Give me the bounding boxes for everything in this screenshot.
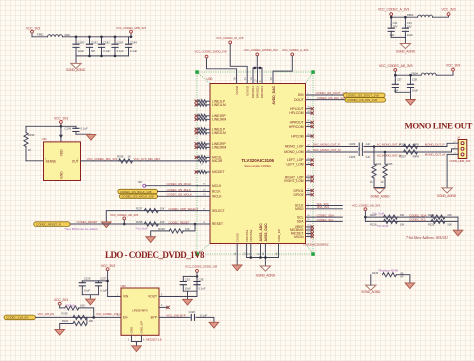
left pin names <box>212 99 227 226</box>
pin MONO_LOP wire <box>306 144 358 146</box>
resistor R237 <box>136 206 165 212</box>
ground arrow (LDO gnd) <box>132 346 142 352</box>
net label CODEC_I2S_DOUT_1V8 <box>316 91 386 97</box>
svg-text:R225: R225 <box>428 222 435 226</box>
resistor R224 <box>428 213 452 219</box>
svg-text:C184: C184 <box>130 41 137 45</box>
wire EN <box>36 316 122 318</box>
svg-text:MIC3R: MIC3R <box>212 159 223 163</box>
svg-text:VCC_1V8_EN: VCC_1V8_EN <box>38 312 55 316</box>
svg-text:CODEC_1V8_EN: CODEC_1V8_EN <box>6 316 28 320</box>
svg-text:CODEC_I2S_BCLK_1V8: CODEC_I2S_BCLK_1V8 <box>120 190 152 194</box>
pin MICIN <box>306 234 314 238</box>
power port VCC_CODEC_AD_3V3 (reset pull-up) <box>110 213 139 225</box>
svg-text:1uF: 1uF <box>390 33 395 37</box>
svg-text:10K: 10K <box>447 213 452 217</box>
svg-text:IOVDD: IOVDD <box>245 85 249 95</box>
svg-text:10K: 10K <box>400 222 405 226</box>
svg-text:MCLK: MCLK <box>212 184 222 188</box>
svg-text:35: 35 <box>203 184 206 186</box>
resistor R230 <box>62 312 87 320</box>
svg-text:VCC_CODEC_HPB_3V3: VCC_CODEC_HPB_3V3 <box>116 26 146 30</box>
svg-text:MONO_OUT_M: MONO_OUT_M <box>425 152 446 156</box>
wire + ground arrow <box>76 134 96 140</box>
ground SGND_AGND (tie) <box>361 275 381 294</box>
svg-text:SDA_3V3: SDA_3V3 <box>317 205 330 209</box>
pin GND_EP <box>275 244 278 258</box>
wire cap rail <box>82 280 107 282</box>
svg-text:LEFT_LOM: LEFT_LOM <box>286 163 303 167</box>
svg-text:VCC_CODEC_IO_1V8: VCC_CODEC_IO_1V8 <box>216 36 244 40</box>
svg-text:8: 8 <box>259 80 262 82</box>
capacitor C184 <box>125 37 138 56</box>
svg-text:DRVDD2: DRVDD2 <box>256 86 260 99</box>
svg-text:*No Stuff: *No Stuff <box>136 227 148 231</box>
capacitor C226 <box>79 277 91 295</box>
svg-text:C183: C183 <box>117 41 124 45</box>
svg-text:NET: NET <box>138 181 143 184</box>
svg-text:36: 36 <box>233 77 236 80</box>
wire + ground arrow (BYP) <box>196 317 219 328</box>
junction dots <box>390 16 393 19</box>
pin LINE2RM <box>195 145 210 149</box>
svg-text:C226: C226 <box>84 277 91 281</box>
pin LINE2LM <box>195 131 210 135</box>
svg-text:41: 41 <box>203 208 206 210</box>
pin HPRCOM <box>306 124 314 128</box>
wire <box>391 16 417 18</box>
capacitor C31 <box>388 17 398 37</box>
wire pull-up row 2 <box>365 220 458 222</box>
power port VCC_CODEC_DVDD_1V8 <box>195 49 237 83</box>
svg-text:4: 4 <box>307 207 309 209</box>
ground SGND_AGND (connector) <box>437 188 457 198</box>
svg-text:49R9: 49R9 <box>413 142 420 146</box>
svg-text:R228(A): R228(A) <box>66 304 76 308</box>
svg-text:VCC_3V3: VCC_3V3 <box>101 264 115 268</box>
svg-text:CODEC_ADR_SELECT: CODEC_ADR_SELECT <box>168 207 198 211</box>
power port VCC_CODEC_AD_3V3 (pull-ups) <box>352 203 381 221</box>
svg-text:MIC5317-1.8: MIC5317-1.8 <box>146 337 162 341</box>
wire out cap rail <box>183 275 197 277</box>
svg-text:AVDD_DAC: AVDD_DAC <box>272 85 276 104</box>
pin RIGHT_LOP <box>306 175 314 179</box>
net label (offsheet) CODEC_1V8_EN flag <box>4 315 36 320</box>
svg-text:BYP: BYP <box>151 316 157 320</box>
svg-text:DRVSS2: DRVSS2 <box>249 229 253 241</box>
svg-text:NP: NP <box>400 276 404 279</box>
svg-text:R231: R231 <box>62 319 69 323</box>
resistor R240 <box>372 271 404 279</box>
svg-text:SGND_AGND: SGND_AGND <box>396 49 416 53</box>
svg-text:10uF: 10uF <box>412 88 418 92</box>
svg-text:R224: R224 <box>428 213 435 217</box>
svg-text:DIN: DIN <box>298 93 304 97</box>
svg-text:VCC_CODEC_DVDD_1V8: VCC_CODEC_DVDD_1V8 <box>195 49 228 53</box>
svg-text:20: 20 <box>243 252 246 255</box>
svg-text:10uF: 10uF <box>185 287 191 291</box>
svg-text:SGND_AGND: SGND_AGND <box>361 290 381 294</box>
svg-text:CODEC_SCL: CODEC_SCL <box>409 218 426 222</box>
svg-text:FB01: FB01 <box>37 32 44 36</box>
power port VCC_3V3 <box>26 26 40 36</box>
svg-text:17: 17 <box>254 79 257 82</box>
svg-text:C181: C181 <box>91 41 98 45</box>
svg-text:R237: R237 <box>136 206 143 210</box>
wire <box>395 74 420 76</box>
wire BYP <box>159 316 190 318</box>
svg-text:CODEC_RESET_R: CODEC_RESET_R <box>36 222 61 226</box>
svg-text:0.1uF: 0.1uF <box>103 49 110 53</box>
svg-text:VCC_SYS_MIC_DET: VCC_SYS_MIC_DET <box>134 157 161 161</box>
svg-text:53: 53 <box>307 193 310 195</box>
svg-text:MONO LINE OUT: MONO LINE OUT <box>405 120 473 130</box>
ground SGND_AGND <box>66 56 86 72</box>
pin HPLOUT <box>306 107 314 111</box>
svg-text:1uF: 1uF <box>366 142 371 146</box>
svg-text:10K: 10K <box>89 319 94 323</box>
power port VCC_CODEC_HPVDD_3V3 <box>244 48 278 84</box>
wire RESET <box>70 223 197 225</box>
resistor R225 <box>428 219 452 226</box>
ground arrow (reset pulldown) <box>146 237 156 243</box>
wire + ground arrow <box>82 295 98 305</box>
resistor R207 <box>400 150 420 158</box>
svg-text:U33: U33 <box>121 284 127 288</box>
svg-text:DVDD: DVDD <box>235 85 239 94</box>
pin MICDET <box>195 170 210 174</box>
svg-text:4: 4 <box>161 304 163 307</box>
pin MICDET2 <box>306 231 314 235</box>
net label CODEC_I2S_DIN_1V8 <box>317 96 386 102</box>
svg-text:2: 2 <box>128 338 130 341</box>
resistor R238 <box>136 220 165 226</box>
svg-text:MICIN: MICIN <box>294 235 304 239</box>
svg-text:GND_EP: GND_EP <box>140 321 144 333</box>
svg-text:AC_MONO_OUT_P: AC_MONO_OUT_P <box>377 143 401 147</box>
svg-text:VCC_CODEC_HPVDD_3V3: VCC_CODEC_HPVDD_3V3 <box>244 48 278 52</box>
connector J4 <box>450 135 471 163</box>
wire join + ground SGND_AGND <box>371 188 391 199</box>
pin LINE2LP <box>195 127 210 131</box>
svg-text:VCC_CODEC_A_3V3: VCC_CODEC_A_3V3 <box>282 48 309 52</box>
power port VCC_CODEC_DVDD_1V8 (out) <box>159 265 218 297</box>
power port VCC_3V3 <box>446 64 460 71</box>
capacitor C37 <box>392 75 402 92</box>
resistor R228 <box>60 304 94 318</box>
svg-text:21: 21 <box>248 252 251 255</box>
pin DVSS + ground <box>232 244 242 271</box>
svg-text:CODEC_I2S_BCLK: CODEC_I2S_BCLK <box>167 188 192 192</box>
svg-text:R206: R206 <box>400 142 407 146</box>
svg-text:1: 1 <box>117 293 119 296</box>
svg-text:6: 6 <box>307 97 309 99</box>
svg-text:5: 5 <box>161 293 163 296</box>
svg-text:C228: C228 <box>189 310 196 314</box>
top pin names (rotated) <box>235 85 276 104</box>
ground arrow (EN pulldown) <box>55 329 65 335</box>
svg-text:R205: R205 <box>387 163 393 166</box>
pin DIN wire <box>306 93 344 95</box>
svg-text:LDO - CODEC_DVDD_1V8: LDO - CODEC_DVDD_1V8 <box>105 250 205 260</box>
net label CODEC_I2S_BCLK_1V8 <box>118 189 158 194</box>
pin NC with no-ERC <box>159 306 170 309</box>
svg-text:TLV320AIC3106IRGZ: TLV320AIC3106IRGZ <box>303 243 329 247</box>
wire sense <box>26 160 44 162</box>
svg-text:CONN_HDR_1X3: CONN_HDR_1X3 <box>450 159 471 163</box>
svg-text:28: 28 <box>307 150 310 152</box>
svg-text:BCLK: BCLK <box>212 190 221 194</box>
capacitor C182 (series, line P) <box>349 142 371 150</box>
pin GPIO2 <box>306 193 314 197</box>
svg-text:DAC_MONO_OUT_P: DAC_MONO_OUT_P <box>313 143 340 147</box>
svg-text:AVSS_DAC: AVSS_DAC <box>264 223 268 242</box>
svg-text:HPRCOM: HPRCOM <box>289 125 304 129</box>
resistor R205 (to gnd) <box>381 152 393 188</box>
svg-text:17: 17 <box>201 170 204 172</box>
svg-text:16V: 16V <box>407 24 412 28</box>
capacitor C182 <box>98 37 111 56</box>
wire + ground arrow AGND <box>396 275 414 289</box>
svg-text:LINE2RM: LINE2RM <box>212 146 227 150</box>
resistor R227 <box>370 213 404 219</box>
pin MCLK <box>198 184 211 186</box>
capacitor C180 <box>72 37 84 56</box>
junction dots <box>373 145 376 148</box>
svg-text:1K: 1K <box>381 180 384 184</box>
resistor R234 <box>24 126 35 161</box>
pin VREF <box>306 225 314 229</box>
pin HPLCOM <box>306 111 314 115</box>
pin LINE2RP <box>195 142 210 146</box>
svg-text:SELECT: SELECT <box>212 209 225 213</box>
pin LEFT_LOP <box>306 158 314 162</box>
green corner handles <box>195 70 314 256</box>
pin DOUT wire <box>306 97 346 99</box>
resistor R231 (pull-down) <box>60 317 94 329</box>
svg-text:SENSE: SENSE <box>46 159 57 163</box>
pin DRVSS1 <box>243 244 246 258</box>
svg-text:FB04: FB04 <box>412 71 419 75</box>
svg-text:LINE2LM: LINE2LM <box>212 131 226 135</box>
svg-text:VDD: VDD <box>60 149 64 157</box>
capacitor C35 <box>180 276 192 291</box>
svg-text:10uF: 10uF <box>407 33 413 37</box>
svg-text:VCC_1V8_BYP: VCC_1V8_BYP <box>166 314 186 318</box>
svg-text:FB03: FB03 <box>407 13 414 17</box>
pin BCLK <box>198 189 211 191</box>
svg-text:VCC_CODEC_AD_3V3: VCC_CODEC_AD_3V3 <box>352 203 381 207</box>
green compile-mask dashed rectangle <box>197 72 313 254</box>
svg-text:HPCOM: HPCOM <box>291 134 304 138</box>
svg-text:LP5907MFX: LP5907MFX <box>132 308 148 312</box>
net label CODEC_I2S_WCLK_1V8 <box>119 194 157 199</box>
pin LINE1LP <box>195 99 210 103</box>
svg-text:AVSS_ADC: AVSS_ADC <box>259 223 263 242</box>
resistor R239 (pull-down) <box>151 224 195 237</box>
svg-text:10K: 10K <box>80 304 85 308</box>
svg-text:39: 39 <box>307 134 310 136</box>
pin MICBIAS <box>306 228 314 232</box>
power port VCC_CODEC_HPB_3V3 <box>116 26 146 33</box>
svg-text:CODEC_RESET: CODEC_RESET <box>77 220 98 224</box>
power port VCC_CODEC_IO_1V8 <box>216 36 247 84</box>
svg-text:MISO: MISO <box>295 207 304 211</box>
svg-text:11: 11 <box>201 142 204 144</box>
power port VCC_CODEC_A_3V3 <box>378 8 409 18</box>
svg-text:SGND_AGND: SGND_AGND <box>66 68 86 72</box>
svg-text:GND: GND <box>60 171 64 179</box>
resistor R206 <box>400 142 420 148</box>
power port VCC_3V3 (mic) <box>54 116 68 126</box>
capacitor C183 <box>111 37 124 56</box>
pin SELECT <box>198 208 211 210</box>
svg-text:1uF: 1uF <box>366 155 371 159</box>
junction dots <box>75 36 78 39</box>
svg-text:U31: U31 <box>42 137 48 141</box>
svg-text:C180: C180 <box>78 41 85 45</box>
pin SDA wire <box>306 219 343 221</box>
wire + ground arrow <box>453 217 463 236</box>
svg-text:13: 13 <box>201 155 204 157</box>
resistor R226 <box>370 219 404 226</box>
svg-text:*See BOM can be added: *See BOM can be added <box>64 227 98 231</box>
svg-text:22: 22 <box>307 225 310 227</box>
junction <box>194 223 197 226</box>
svg-text:38: 38 <box>307 124 310 126</box>
svg-text:60R: 60R <box>65 33 70 37</box>
svg-text:*No Stuff: *No Stuff <box>376 224 388 228</box>
wire bottom <box>391 36 405 38</box>
svg-text:C227: C227 <box>100 277 107 281</box>
resistor R204 (to gnd) <box>370 147 382 188</box>
svg-text:49R9: 49R9 <box>413 154 420 158</box>
wire bottom <box>395 91 410 93</box>
svg-text:10K: 10K <box>160 220 165 224</box>
svg-text:24: 24 <box>307 231 310 233</box>
pin MIC3L <box>195 155 210 159</box>
svg-text:C36: C36 <box>199 278 204 282</box>
capacitor C227 <box>95 277 107 295</box>
svg-text:10K: 10K <box>160 206 165 210</box>
svg-text:VCC_3V3: VCC_3V3 <box>446 64 460 68</box>
wire bottom rail <box>76 55 129 57</box>
wire <box>436 71 453 75</box>
svg-text:AC_MONO_OUT_M: AC_MONO_OUT_M <box>377 153 402 157</box>
svg-text:VOUT: VOUT <box>148 295 157 299</box>
svg-text:TLV320AIC3106: TLV320AIC3106 <box>241 158 274 163</box>
wire line P <box>364 143 454 146</box>
svg-text:42: 42 <box>234 252 237 255</box>
svg-text:49: 49 <box>275 252 278 255</box>
wire gnd bus <box>247 258 279 267</box>
svg-text:R227: R227 <box>370 213 377 217</box>
svg-text:R240: R240 <box>372 271 379 275</box>
svg-text:LEFT_LOP: LEFT_LOP <box>287 158 304 162</box>
svg-text:1K: 1K <box>128 154 131 158</box>
svg-text:0.1uF: 0.1uF <box>130 49 137 53</box>
svg-text:R238: R238 <box>136 220 143 224</box>
pin AVSS_ADC <box>257 244 260 258</box>
ground SGND_AGND <box>256 266 276 277</box>
svg-text:CODEC_I2S_DIN_1V8: CODEC_I2S_DIN_1V8 <box>347 98 377 102</box>
wire SELECT <box>106 211 197 222</box>
wire VDD drop with pin arrow <box>59 126 63 142</box>
svg-text:LINE1LM: LINE1LM <box>212 103 226 107</box>
wire <box>32 36 48 38</box>
svg-text:SGND_AGND: SGND_AGND <box>256 273 276 277</box>
svg-text:6: 6 <box>143 338 145 341</box>
svg-text:CODEC_I2S_MCLK: CODEC_I2S_MCLK <box>167 182 192 186</box>
svg-text:5: 5 <box>307 93 309 95</box>
svg-text:26: 26 <box>262 252 265 255</box>
no-ERC blanket (violet circle) <box>138 181 146 187</box>
svg-text:45: 45 <box>307 158 310 160</box>
svg-text:31: 31 <box>203 222 206 224</box>
wire BCLK <box>158 191 198 193</box>
svg-text:NP: NP <box>91 49 95 53</box>
svg-text:VCC_CODEC_DVDD_1V8: VCC_CODEC_DVDD_1V8 <box>185 265 218 269</box>
resistor R236 <box>117 154 132 163</box>
svg-text:0.1uF: 0.1uF <box>117 49 124 53</box>
svg-text:SGND_AGND: SGND_AGND <box>371 194 391 198</box>
svg-text:7-bit Slave Address: 0011011: 7-bit Slave Address: 0011011 <box>406 236 448 240</box>
wire top rail <box>26 125 76 127</box>
svg-text:RESET: RESET <box>212 222 223 226</box>
svg-text:C38: C38 <box>412 77 417 81</box>
svg-text:VCC_CODEC_AD_3V3: VCC_CODEC_AD_3V3 <box>379 64 413 68</box>
svg-text:CODEC_I2S_WCLK: CODEC_I2S_WCLK <box>167 193 192 197</box>
svg-text:25: 25 <box>307 234 310 236</box>
svg-text:SDA: SDA <box>297 220 305 224</box>
svg-text:C34: C34 <box>407 21 412 25</box>
svg-text:HPLCOM: HPLCOM <box>289 111 303 115</box>
svg-text:VIN: VIN <box>123 295 129 299</box>
svg-text:DVSS: DVSS <box>235 233 239 241</box>
op-amp U30 body <box>210 84 306 244</box>
svg-text:0.1uF: 0.1uF <box>100 289 107 293</box>
pin DRVSS2 <box>248 244 251 258</box>
svg-text:16: 16 <box>250 77 253 80</box>
pin RESET <box>198 222 211 224</box>
svg-text:SGND_AGND: SGND_AGND <box>437 194 457 198</box>
svg-text:DAC_MONO_OUT_M: DAC_MONO_OUT_M <box>313 148 341 152</box>
svg-text:J4: J4 <box>457 135 460 139</box>
wire <box>63 33 132 37</box>
LDO GND pins <box>128 335 145 346</box>
svg-text:27: 27 <box>307 144 310 146</box>
capacitor C34 <box>402 17 413 37</box>
svg-text:0.1uF: 0.1uF <box>199 287 206 291</box>
junction dots <box>394 74 397 77</box>
pin SCLK wire <box>306 203 343 205</box>
svg-text:28: 28 <box>203 189 206 191</box>
svg-text:MICDET: MICDET <box>212 170 225 174</box>
svg-text:GND: GND <box>130 326 134 334</box>
svg-text:DRVDD1: DRVDD1 <box>251 86 255 99</box>
svg-text:DRVDD3: DRVDD3 <box>260 86 264 99</box>
svg-text:16V: 16V <box>393 24 398 28</box>
svg-text:29: 29 <box>203 194 206 196</box>
svg-text:R204: R204 <box>376 163 382 166</box>
svg-text:CODEC_I2S_DIN_1V8: CODEC_I2S_DIN_1V8 <box>317 96 346 100</box>
svg-text:37: 37 <box>307 120 310 122</box>
ferrite bead FB04 <box>412 71 437 75</box>
wire MCLK <box>146 185 198 187</box>
svg-text:1K: 1K <box>28 148 32 152</box>
svg-text:23: 23 <box>307 228 310 230</box>
svg-text:52: 52 <box>307 188 310 190</box>
